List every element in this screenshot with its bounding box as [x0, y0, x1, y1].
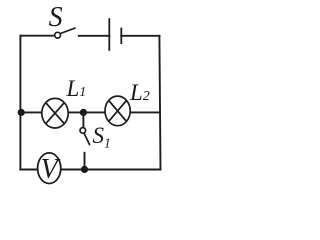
junction dot mid: [80, 109, 87, 116]
wire: S1 branch upper: [82, 112, 84, 127]
wire: top-middle segment: [79, 35, 110, 37]
switch S1 pivot: [80, 128, 86, 134]
wire: left side: [19, 36, 21, 170]
svg-text:V: V: [41, 154, 61, 185]
switch S1 blade: [84, 133, 90, 145]
wire: right side: [159, 36, 160, 170]
lamp L1: [42, 98, 68, 128]
wire: S1 branch lower: [84, 152, 86, 170]
wire: top-left segment: [20, 35, 53, 37]
wire: bottom: [20, 169, 160, 171]
switch S pivot: [55, 32, 61, 38]
switch S blade: [60, 28, 75, 33]
junction dot bottom: [81, 166, 88, 173]
lamp L2: [105, 96, 130, 126]
wire: middle branch: [20, 111, 159, 113]
junction dot left: [18, 109, 25, 116]
wire: top-right segment: [121, 35, 159, 37]
battery long plate: [108, 18, 110, 51]
svg-text:S: S: [49, 2, 63, 33]
voltmeter V: [38, 153, 61, 185]
battery short plate: [120, 28, 122, 44]
